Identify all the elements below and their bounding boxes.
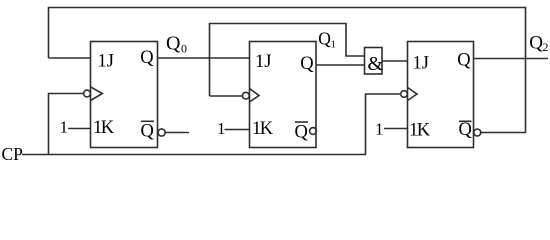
svg-text:Q: Q — [457, 50, 471, 70]
svg-text:Q: Q — [141, 122, 155, 142]
svg-text:Q: Q — [295, 123, 309, 143]
svg-text:Q: Q — [166, 33, 181, 55]
svg-text:CP: CP — [2, 144, 24, 164]
svg-text:&: & — [368, 53, 384, 75]
svg-text:1J: 1J — [413, 53, 429, 73]
svg-text:Q: Q — [140, 48, 154, 68]
svg-text:1: 1 — [375, 120, 384, 139]
svg-text:2: 2 — [543, 40, 549, 54]
svg-text:1: 1 — [60, 118, 69, 137]
svg-text:Q: Q — [459, 120, 473, 140]
svg-text:1J: 1J — [98, 51, 114, 71]
svg-text:1J: 1J — [255, 52, 271, 72]
svg-text:Q: Q — [529, 33, 543, 54]
svg-text:Q: Q — [300, 54, 314, 74]
svg-text:1: 1 — [331, 39, 337, 51]
svg-text:1K: 1K — [93, 118, 115, 138]
svg-text:1: 1 — [217, 119, 226, 138]
svg-text:0: 0 — [181, 42, 187, 56]
svg-text:Q: Q — [318, 29, 331, 49]
svg-text:1K: 1K — [409, 121, 431, 141]
svg-text:1K: 1K — [252, 119, 274, 139]
